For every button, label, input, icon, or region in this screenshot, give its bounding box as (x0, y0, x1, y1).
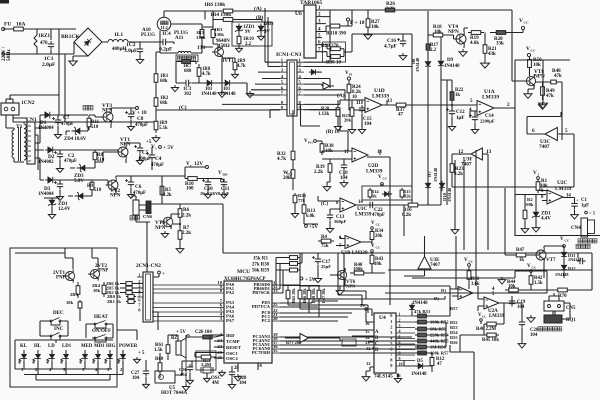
resistor R60 (159, 360, 161, 374)
wire rails from CN1 (13, 115, 47, 180)
ground R49 (539, 102, 547, 109)
resistor R70 (553, 289, 572, 291)
svg-text:1N4148: 1N4148 (447, 187, 452, 202)
svg-text:6: 6 (399, 339, 401, 344)
wire crystal (192, 353, 224, 377)
svg-text:+ 5V: + 5V (305, 277, 316, 283)
buffer pin5 (323, 83, 330, 90)
wire MCU right routing (280, 253, 428, 353)
resistor R50 (529, 57, 531, 70)
svg-text:50Hz: 50Hz (6, 49, 12, 61)
svg-text:(B) 10: (B) 10 (326, 128, 340, 135)
svg-text:4.7k: 4.7k (277, 156, 286, 162)
svg-text:2.4M: 2.4M (201, 362, 212, 367)
capacitor Cy (577, 258, 586, 264)
svg-text:470: 470 (40, 40, 48, 46)
diode D2 rail2 (45, 147, 56, 153)
ground U4b (394, 376, 401, 383)
resistor R21 (484, 38, 486, 60)
svg-text:CN4: CN4 (571, 225, 581, 231)
ground VT6 (336, 288, 344, 295)
diode 101a (205, 80, 216, 86)
svg-text:130k: 130k (215, 32, 225, 37)
wire R65 col top (283, 286, 320, 288)
svg-text:1k: 1k (372, 194, 377, 199)
svg-text:1N4002: 1N4002 (38, 160, 54, 165)
svg-text:4.4V: 4.4V (541, 216, 551, 222)
wire display board outline (10, 248, 117, 387)
svg-text:15k R3: 15k R3 (253, 257, 268, 262)
wire 2VT area (15, 248, 98, 269)
svg-text:2.2k: 2.2k (314, 169, 323, 175)
wire U4 out pins (396, 316, 415, 366)
svg-text:1N4148: 1N4148 (411, 372, 427, 377)
node thermal label (578, 239, 582, 243)
resistor R37 (393, 104, 409, 106)
svg-text:2R1 1k: 2R1 1k (107, 299, 121, 304)
svg-text:470μF: 470μF (133, 191, 146, 196)
svg-text:V: V (560, 236, 564, 242)
svg-text:+ 5: + 5 (138, 351, 145, 356)
wire right vertical bus2 (456, 262, 592, 290)
wire 2CN1 pins (137, 277, 143, 297)
svg-text:10k: 10k (374, 262, 382, 267)
resistor R25 (351, 104, 353, 120)
svg-text:68k: 68k (160, 79, 168, 84)
svg-text:2.2k: 2.2k (163, 193, 172, 198)
transistor VT2 (106, 178, 119, 192)
svg-text:V: V (464, 257, 468, 263)
zener ZD1b (532, 210, 540, 221)
ground osc (204, 376, 211, 382)
power label (83, 105, 88, 110)
svg-text:CC: CC (524, 21, 530, 25)
svg-text:RESET: RESET (226, 345, 241, 350)
svg-text:12V: 12V (194, 161, 203, 167)
svg-text:3: 3 (399, 323, 401, 328)
diode D11 (561, 250, 567, 261)
svg-text:R46 2.2M: R46 2.2M (476, 327, 497, 332)
capacitor C36 (187, 364, 193, 373)
svg-text:47k R51: 47k R51 (414, 309, 431, 314)
svg-text:470μF: 470μF (135, 123, 148, 128)
diode 101b (223, 80, 234, 86)
wire ladder right (412, 289, 450, 355)
svg-text:CN6: CN6 (143, 214, 153, 219)
resistor R38b (321, 141, 323, 155)
ground C1 (571, 212, 579, 219)
wire thermal box (441, 195, 600, 254)
svg-text:V: V (378, 174, 382, 180)
svg-text:75k: 75k (321, 244, 329, 249)
resistor R68 (308, 287, 310, 302)
ground RQ1 left (527, 315, 535, 322)
svg-text:F + 18: F + 18 (350, 20, 365, 26)
wire top right frame (335, 10, 515, 236)
resistor 1R8 (198, 64, 200, 80)
capacitor C15 (359, 105, 365, 114)
svg-text:BZ: BZ (171, 336, 177, 341)
thermistor RQ1 (544, 315, 562, 323)
capacitor C12 (449, 108, 455, 117)
buffer U3C (545, 128, 557, 141)
ground big right (539, 100, 548, 108)
svg-text:D7: D7 (427, 171, 432, 177)
wire MCU left pins PA (153, 285, 224, 321)
svg-text:9: 9 (399, 356, 401, 361)
capacitor C3r (57, 181, 63, 190)
svg-text:10k: 10k (533, 62, 541, 68)
resistor 1R9b (234, 60, 236, 72)
svg-text:CC: CC (531, 49, 537, 53)
ground C28 (228, 382, 235, 389)
wire 1R1 top (156, 52, 160, 70)
svg-text:POWER: POWER (119, 344, 138, 349)
svg-text:NPN: NPN (110, 193, 121, 199)
svg-text:470μF: 470μF (64, 159, 77, 164)
resistor R11 (88, 115, 90, 130)
svg-text:4: 4 (399, 328, 401, 333)
svg-text:28: 28 (234, 366, 239, 371)
node pot temp label (538, 327, 542, 331)
svg-text:LM339: LM339 (482, 95, 499, 101)
svg-text:KL: KL (20, 344, 28, 349)
svg-text:HOT 7044A: HOT 7044A (161, 390, 187, 396)
svg-text:V: V (533, 170, 537, 176)
svg-text:100k R57: 100k R57 (430, 351, 449, 356)
svg-text:10: 10 (399, 361, 403, 366)
wire VT4 (446, 28, 468, 48)
wire 1VT1 area (202, 11, 218, 50)
wire ladder out (450, 345, 474, 400)
svg-text:LD: LD (48, 344, 55, 349)
resistor R2b 100k (524, 207, 526, 222)
svg-text:1L1: 1L1 (114, 32, 123, 38)
IR receiver U5 (155, 371, 175, 383)
svg-text:2R3: 2R3 (70, 292, 79, 297)
resistor R20 dark (490, 32, 512, 34)
wire U4 left pins (365, 308, 368, 311)
wire bus lines (300, 270, 592, 299)
svg-text:HL: HL (34, 344, 42, 349)
wire 1L2 (160, 11, 205, 42)
svg-text:FG: FG (308, 141, 313, 145)
svg-text:LM339: LM339 (489, 314, 505, 319)
svg-text:DEC: DEC (53, 310, 64, 316)
svg-text:16: 16 (396, 373, 401, 378)
capacitor C10 (205, 179, 211, 188)
wire CN5 RQ1 (549, 293, 570, 319)
svg-text:PA2: PA2 (226, 290, 235, 295)
resistor 1R5 (201, 27, 203, 40)
svg-text:PD7TCA: PD7TCA (252, 304, 271, 309)
wire right mid frame (452, 178, 574, 187)
svg-text:47k: 47k (546, 93, 554, 99)
svg-text:+5V: +5V (309, 224, 318, 230)
diode D8 (425, 59, 431, 70)
svg-text:C7: C7 (63, 115, 70, 121)
diode D12 (561, 263, 567, 274)
svg-text:25: 25 (273, 302, 278, 307)
svg-text:10k: 10k (93, 288, 101, 293)
resistor R22a (451, 88, 453, 104)
resistor R52 (415, 321, 429, 323)
svg-text:1.12k: 1.12k (318, 112, 329, 117)
svg-text:PB7SCK: PB7SCK (252, 290, 270, 295)
diode D5 (416, 363, 427, 369)
svg-text:1C4: 1C4 (162, 31, 171, 37)
svg-text:47k: 47k (554, 73, 562, 79)
diode D3 rail3 (45, 177, 56, 183)
resistor R12b (431, 355, 433, 368)
svg-text:130k: 130k (196, 35, 206, 40)
svg-text:1N4148: 1N4148 (433, 167, 438, 182)
resistor R19 (468, 32, 484, 34)
svg-text:FU: FU (4, 22, 11, 28)
svg-text:43k: 43k (488, 51, 496, 57)
svg-text:7407: 7407 (430, 262, 441, 268)
ground MCU28 (234, 374, 242, 381)
resistor R6b (179, 204, 181, 222)
resistor R17 (427, 42, 429, 52)
wire U1D (330, 10, 477, 110)
svg-text:0.2μF: 0.2μF (159, 47, 173, 53)
svg-text:A: A (375, 330, 379, 335)
ground 1C3 area (171, 85, 178, 92)
resistor R30 (327, 56, 344, 58)
svg-text:2: 2 (399, 317, 401, 322)
wire VT3 out (111, 108, 136, 128)
resistor 1R9c (155, 118, 157, 133)
svg-text:R45 10k: R45 10k (482, 338, 499, 343)
svg-text:56k R59: 56k R59 (252, 269, 270, 274)
ground small1 (134, 357, 141, 363)
svg-text:302: 302 (184, 92, 192, 97)
ground thermal (451, 227, 459, 234)
svg-text:2.2k: 2.2k (182, 213, 191, 219)
svg-text:10k: 10k (66, 300, 74, 305)
svg-text:PC2: PC2 (262, 318, 271, 323)
zener 1ZD2 (257, 24, 265, 35)
svg-text:510: 510 (94, 188, 102, 193)
svg-text:MED: MED (81, 344, 93, 349)
wire right edge display (117, 312, 158, 366)
ground 1VT1 (218, 90, 226, 97)
ground R27 (364, 32, 372, 39)
terminal F+18 (346, 18, 349, 21)
svg-text:LM339: LM339 (555, 186, 572, 192)
resistor R49 (542, 82, 544, 100)
resistor R5 (161, 183, 163, 198)
svg-text:+ 5V: + 5V (163, 145, 174, 151)
svg-text:10μF/16V: 10μF/16V (200, 191, 219, 196)
resistor R46 (484, 323, 499, 325)
wire frame misc (10, 95, 450, 289)
svg-text:100k: 100k (353, 268, 363, 273)
svg-text:(A): (A) (337, 92, 345, 99)
capacitor C11 (221, 179, 227, 188)
svg-text:1μF: 1μF (581, 204, 589, 209)
svg-text:10k: 10k (508, 285, 516, 290)
resistor R9 (91, 180, 93, 192)
svg-text:2: 2 (538, 173, 540, 177)
svg-text:5.8V: 5.8V (74, 178, 84, 184)
resistor R33 (294, 193, 296, 205)
resistor R34 (371, 229, 373, 242)
transistor VT6 (335, 268, 347, 281)
wire fan bus (288, 302, 372, 317)
wire sense bottom (176, 62, 199, 84)
svg-text:2CN1-CN2: 2CN1-CN2 (136, 263, 161, 269)
node AC input corner mark (0, 0, 9, 4)
wire 1VT1 down (222, 58, 235, 76)
ground C12 C14 opamp (448, 124, 455, 131)
terminal +5V mid (305, 225, 308, 228)
transistor VT7 (534, 248, 547, 262)
svg-text:100: 100 (186, 186, 194, 192)
wire pin1 A-line (285, 10, 512, 11)
resistor R51 (415, 315, 429, 317)
resistor 2R4 (103, 282, 105, 297)
svg-text:2: 2 (390, 325, 392, 330)
svg-text:680: 680 (184, 69, 192, 74)
svg-text:MD1: MD1 (94, 344, 105, 349)
svg-text:10k: 10k (371, 24, 379, 30)
wire R3 bus (272, 253, 302, 293)
op-amp U1C (340, 198, 356, 212)
svg-text:2200μF: 2200μF (480, 119, 495, 124)
capacitor C13 (327, 212, 333, 221)
svg-text:3.0μF: 3.0μF (124, 48, 138, 54)
resistor R45 (484, 334, 499, 336)
svg-text:PA7: PA7 (226, 318, 235, 323)
svg-text:104: 104 (364, 121, 372, 127)
resistor R56 (415, 346, 429, 348)
svg-text:V: V (371, 243, 375, 249)
svg-text:U6: U6 (295, 11, 302, 17)
svg-text:A11: A11 (175, 35, 184, 41)
svg-text:1: 1 (399, 311, 401, 316)
zener 1ZD1 (232, 22, 272, 46)
svg-text:R65 20k: R65 20k (291, 288, 296, 303)
capacitor C6 (128, 179, 134, 188)
svg-text:1CN2: 1CN2 (21, 100, 35, 106)
svg-text:PLUG: PLUG (141, 32, 155, 38)
svg-text:1T1: 1T1 (197, 45, 206, 51)
resistor R44 (505, 289, 522, 291)
svg-text:6: 6 (532, 128, 535, 134)
svg-text:LM339: LM339 (355, 212, 372, 218)
svg-text:PC7FRH: PC7FRH (252, 350, 271, 355)
wire VT5 (150, 180, 180, 229)
svg-text:CC: CC (482, 315, 486, 319)
svg-text:47: 47 (437, 362, 442, 367)
svg-text:5: 5 (399, 334, 401, 339)
resistor 1R2 (155, 94, 157, 110)
ground C36 (187, 378, 194, 384)
ground 1R9 (152, 135, 160, 142)
resistor 2R3 (77, 282, 79, 298)
diode pin3 (309, 69, 320, 75)
wire zd1 rail (44, 197, 60, 199)
svg-text:47: 47 (398, 112, 404, 118)
svg-text:1N4148: 1N4148 (555, 272, 568, 277)
svg-text:T1: T1 (16, 124, 23, 130)
svg-text:5: 5 (565, 128, 568, 134)
capacitor C7 (55, 117, 61, 126)
wire vertical x456 (455, 236, 457, 289)
svg-text:5.1k: 5.1k (159, 126, 168, 131)
svg-text:V: V (527, 263, 531, 269)
op-amp U2B (458, 287, 473, 300)
svg-text:3.6k: 3.6k (471, 282, 480, 287)
svg-text:104: 104 (132, 376, 140, 381)
buffer U3E (418, 257, 431, 269)
wire +5V C26 (187, 335, 190, 338)
svg-text:20k: 20k (344, 118, 352, 123)
svg-text:+: + (162, 271, 165, 277)
svg-text:U4: U4 (379, 315, 386, 321)
capacitor C20 (519, 319, 525, 328)
ground VT4 (459, 49, 467, 56)
svg-text:CC: CC (376, 246, 381, 250)
resistor R36 (468, 267, 470, 283)
resistor R29 (327, 48, 344, 50)
svg-text:104: 104 (180, 372, 188, 377)
svg-text:R310 390: R310 390 (326, 31, 347, 37)
resistor R40 (350, 272, 368, 274)
svg-text:NPN: NPN (120, 142, 131, 148)
svg-text:1k: 1k (519, 258, 524, 263)
svg-text:CC: CC (532, 266, 537, 270)
svg-text:4.7k: 4.7k (237, 64, 246, 69)
wire R48 right (558, 82, 562, 140)
resistor 1R3 (212, 27, 214, 40)
resistor R48 (549, 81, 558, 83)
zener ZD5 (75, 192, 86, 200)
ground mid1 (498, 277, 506, 284)
svg-text:12: 12 (366, 361, 371, 366)
ground VT8 (524, 91, 532, 98)
terminal +3V (300, 277, 303, 280)
svg-text:HEAT: HEAT (94, 314, 109, 320)
svg-text:13: 13 (387, 98, 393, 104)
ground U4 (362, 374, 370, 381)
svg-text:560pF: 560pF (334, 219, 346, 224)
resistor R67 (318, 287, 320, 302)
resistor R43 (371, 252, 373, 267)
svg-text:4.6k: 4.6k (470, 40, 479, 46)
svg-text:4.7μF: 4.7μF (384, 44, 397, 50)
wire fan to U4 (300, 253, 592, 316)
svg-text:1N4148: 1N4148 (444, 64, 460, 69)
resistor R10b (185, 178, 200, 180)
svg-text:D5: D5 (417, 359, 423, 364)
zener ZD3 (77, 164, 88, 172)
wire VT7 area (505, 236, 592, 262)
svg-text:1VT1: 1VT1 (222, 59, 234, 64)
svg-text:470μF: 470μF (61, 122, 74, 127)
capacitor C22 (367, 202, 376, 208)
ground VT5 (161, 231, 168, 238)
svg-text:CC: CC (383, 177, 388, 181)
svg-text:20: 20 (273, 316, 278, 321)
wire crystal box (196, 351, 216, 370)
svg-text:C1: C1 (581, 198, 587, 203)
resistor R23 (451, 158, 453, 178)
svg-text:DD: DD (223, 173, 229, 177)
svg-text:R66 20k: R66 20k (302, 288, 307, 303)
